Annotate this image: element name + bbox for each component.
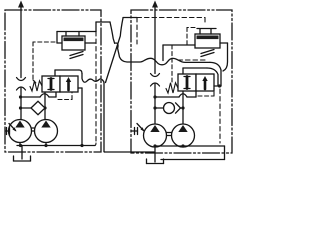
shaft coupling right unit: [167, 133, 172, 136]
check valve CV1 diamond left: [31, 101, 45, 114]
relief valve RV1 left unit: [62, 36, 85, 50]
valve V2 blocked symbol: [186, 77, 189, 89]
wire pressure branch y97 right with hop: [155, 91, 196, 97]
inner dashed manifold box right unit: [137, 18, 205, 61]
wire return line right unit: [155, 146, 225, 160]
hose wavy line center to right unit: [131, 58, 210, 65]
wire check line y108 left: [21, 107, 32, 109]
pump P4 right unit: [172, 124, 195, 147]
spring valve V2: [166, 83, 178, 93]
wire relief inlet left: [57, 32, 62, 44]
valve V2 flow arrow: [202, 76, 207, 89]
wire tank drop left unit: [21, 146, 23, 160]
wire pressure branch y97 left with hop: [21, 92, 57, 97]
node junction dots right return: [153, 144, 184, 147]
pump P2 left unit: [35, 120, 58, 143]
drain dashed line x96 left: [95, 32, 97, 145]
wire valve V2 top port: [183, 68, 218, 86]
valve V1 blocked symbol: [50, 79, 53, 90]
wire valve-to-pump riser x45 left: [44, 92, 46, 120]
wire relief inlet right: [163, 45, 195, 61]
relief valve RV1 spring: [70, 52, 83, 59]
shaft coupling left unit: [32, 128, 35, 131]
node pressure tee dots left: [19, 95, 47, 109]
wire pump suction drops left unit: [20, 143, 46, 146]
pump P3 right unit: [144, 124, 167, 147]
dashed manifold corner left unit: [58, 92, 72, 100]
wire valve V1 side drain to return: [78, 88, 82, 146]
wire relief top rail left: [57, 31, 96, 33]
wire right elbow down: [210, 62, 221, 86]
enclosure box right unit: [131, 10, 232, 153]
quick coupling right riser: [151, 74, 160, 87]
pilot dashed line right unit: [172, 28, 195, 85]
hose wavy line left unit: [82, 79, 103, 83]
wire hose downcomer x104: [103, 80, 154, 152]
cross line A left-to-right: [96, 22, 131, 62]
pilot dashed line left unit: [33, 42, 55, 84]
node pressure tee dots right: [153, 95, 184, 109]
wire valve-to-pump riser x183: [182, 91, 184, 124]
flow arrow right outlet: [152, 1, 158, 8]
relief valve RV2 spring: [201, 50, 214, 57]
enclosure box left unit: [5, 10, 101, 152]
cross line B right-to-left: [106, 18, 138, 83]
tank T2 right unit: [147, 159, 164, 164]
spring valve V1: [30, 81, 42, 91]
pump P1 left unit: [9, 120, 32, 143]
relief valve RV2 top pins: [200, 29, 211, 34]
check valve CV2 right unit: [164, 103, 184, 114]
relief valve RV1 top pins: [66, 32, 79, 37]
wire relief top rail right: [197, 28, 216, 30]
directional valve V1 left unit: [42, 76, 78, 92]
drain dashed line right: [219, 89, 221, 143]
wire right outlet riser: [154, 4, 156, 74]
dashed manifold corner right unit: [198, 88, 214, 96]
directional valve V2 right unit: [178, 74, 214, 91]
wire left outlet riser: [20, 4, 22, 78]
node dot right elbow: [218, 84, 221, 87]
node junction dots left return: [19, 144, 84, 147]
wire relief outlet right: [220, 43, 228, 71]
wire pump drops right unit: [155, 146, 183, 162]
quick coupling left riser: [17, 78, 26, 91]
wire check line y108 right: [155, 107, 164, 109]
wire relief outlet left: [85, 42, 96, 44]
drive shaft arrow left unit: [6, 124, 17, 135]
flow arrow left outlet: [18, 1, 24, 8]
drive shaft arrow right unit: [132, 124, 145, 135]
valve V1 flow arrow: [66, 77, 71, 90]
tank T1 left unit: [14, 156, 31, 161]
wire valve V1 top port to hose: [55, 70, 82, 78]
relief valve RV2 right unit: [195, 34, 220, 48]
wire return line left unit: [17, 145, 95, 147]
